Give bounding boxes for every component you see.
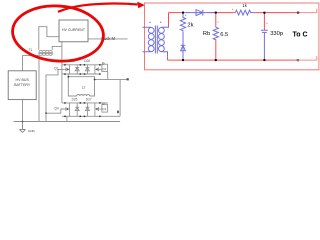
- wire phase node A: [68, 74, 76, 96]
- resistor 2k: [180, 13, 185, 32]
- svg-text:T1: T1: [28, 48, 32, 52]
- svg-text:D27: D27: [86, 97, 92, 101]
- transformer core: [155, 26, 157, 54]
- svg-text:D25: D25: [72, 97, 78, 101]
- arrowhead: [137, 2, 145, 9]
- wire top left vertical: [168, 13, 170, 26]
- bridge top row group Q1/D26 and D28/Q2: [65, 63, 108, 74]
- transformer secondary top bend: [161, 26, 168, 28]
- wire left rail x39: [38, 56, 40, 122]
- phase dot xfmr secondary: [160, 22, 161, 23]
- phase dot xfmr primary: [149, 22, 150, 23]
- wire T1 bottom return: [23, 56, 40, 71]
- wire bottom ground bus: [14, 121, 121, 123]
- wire top bus mid segment: [210, 12, 236, 14]
- diode D26: [76, 65, 78, 74]
- svg-text:330p: 330p: [270, 31, 283, 37]
- diode D2 (top horizontal): [184, 10, 216, 16]
- wire HV box bottom to bridge top bus: [61, 42, 63, 65]
- phase dot cap: [266, 23, 267, 24]
- diode D27: [86, 103, 88, 116]
- transistor Q2: [94, 65, 96, 74]
- wire T1 right terminal to HV box bottom: [52, 47, 62, 50]
- bridge bottom row group Q4/D25 and D27/Q3: [65, 103, 108, 117]
- transformer T1: [39, 50, 53, 55]
- svg-text:Rb: Rb: [203, 31, 210, 37]
- svg-text:HV CURRENT: HV CURRENT: [62, 28, 86, 32]
- terminal bottom right: [297, 59, 299, 61]
- svg-text:BATTERY: BATTERY: [14, 83, 31, 87]
- svg-text:Q1: Q1: [54, 66, 58, 70]
- transistor Q4: [69, 103, 71, 116]
- wire battery bottom drop: [22, 100, 24, 122]
- transformer left stub bottom: [143, 51, 148, 53]
- wire bottom bus extension to edge: [298, 56, 317, 60]
- svg-text:Q2: Q2: [102, 67, 106, 71]
- sensor box bottom row: [102, 104, 108, 112]
- diode D25: [76, 103, 78, 116]
- wire bridge top bus: [62, 64, 108, 66]
- transistor Q1: [69, 65, 71, 74]
- transformer secondary bottom bend: [161, 52, 167, 57]
- wire phase node B vertical: [90, 79, 95, 96]
- phase dot Rb: [217, 21, 218, 22]
- svg-text:Q4: Q4: [54, 107, 58, 111]
- wire cap top lead: [263, 13, 265, 31]
- wire right rail x120: [119, 79, 121, 116]
- svg-text:L2: L2: [82, 86, 86, 90]
- callout arrow: [58, 3, 138, 11]
- blue component strokes: [143, 9, 268, 60]
- wire bridge left vertical: [61, 65, 63, 103]
- HV BUS BATTERY box: [8, 71, 36, 100]
- wire bottom row top rail: [62, 102, 108, 104]
- svg-text:D28: D28: [84, 59, 90, 63]
- wire bridge mid rail: [62, 73, 100, 75]
- transformer left stub top: [143, 26, 148, 28]
- terminal mark lower right: [117, 111, 119, 114]
- ground: [19, 122, 25, 133]
- phase dot 2k: [185, 15, 186, 16]
- wire Q4 source drop: [66, 116, 68, 121]
- wire gate rail x46: [45, 75, 47, 122]
- wire bottom left vertical: [167, 56, 169, 60]
- resistor Rb: [213, 27, 218, 39]
- terminal mark phase wire exit: [127, 78, 129, 80]
- svg-text:To C: To C: [293, 32, 308, 39]
- diode D28: [86, 65, 88, 74]
- svg-text:GND: GND: [28, 129, 36, 133]
- capacitor 330p: [261, 30, 268, 60]
- transformer secondary coil: [159, 28, 165, 34]
- highlight ellipse: [11, 3, 106, 64]
- wire Buck M net: [88, 38, 128, 40]
- svg-text:6.5: 6.5: [220, 32, 228, 38]
- junction dots left schematic: [22, 64, 101, 122]
- svg-text:2k: 2k: [187, 22, 193, 28]
- junction dots right schematic: [182, 12, 265, 62]
- svg-text:Q3: Q3: [102, 107, 106, 111]
- wire bridge right vertical upper: [107, 72, 109, 80]
- sensor box top row: [102, 64, 108, 71]
- phase dot 1k: [232, 9, 233, 10]
- red wires: [168, 13, 299, 61]
- HV CURRENT box U-hv: [59, 20, 88, 42]
- wire top bus left segment: [169, 12, 185, 14]
- wire Rb bottom lead: [215, 39, 217, 60]
- wire Rb top lead: [215, 13, 217, 28]
- wire bottom bus: [168, 59, 299, 61]
- terminal top right: [297, 12, 299, 14]
- wire top bus extension to edge: [298, 9, 317, 13]
- wire phase mid horizontal: [68, 77, 127, 80]
- wire Q4 gate: [46, 109, 65, 113]
- inductor L2: [77, 95, 90, 96]
- wire Q1 gate: [46, 69, 65, 75]
- svg-text:HV BUS: HV BUS: [16, 78, 30, 82]
- resistor 1k: [235, 10, 254, 15]
- transistor Q3: [94, 103, 96, 116]
- wire bottom row bottom rail: [62, 115, 120, 117]
- schematic frame border: [145, 3, 319, 70]
- transformer primary coil: [148, 28, 154, 34]
- diode D1 lead + symbol: [181, 31, 186, 60]
- transformer T1 primary loop wire: [39, 27, 59, 50]
- wire top bus right segment: [255, 12, 298, 14]
